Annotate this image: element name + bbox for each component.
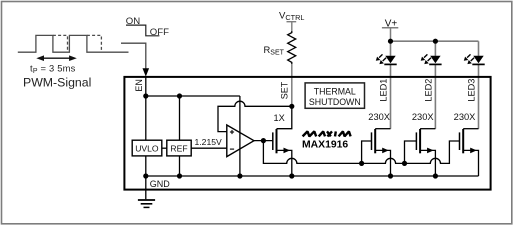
tP period arrow bbox=[36, 55, 77, 61]
op-amp U1 bbox=[227, 125, 254, 157]
ON/OFF step bbox=[126, 25, 159, 36]
svg-text:230X: 230X bbox=[368, 112, 390, 122]
node REF tap junction bbox=[177, 93, 182, 98]
svg-text:THERMAL: THERMAL bbox=[314, 87, 356, 97]
EN arrowhead bbox=[143, 68, 150, 76]
node GND junction UVLO bbox=[143, 173, 148, 178]
svg-text:REF: REF bbox=[170, 143, 187, 153]
wire gate bus with hops bbox=[263, 141, 459, 164]
wire SET pin bbox=[291, 64, 293, 106]
MAXIM logo bbox=[303, 131, 351, 136]
svg-text:VCTRL: VCTRL bbox=[279, 10, 304, 22]
node gate bus junction M1 bbox=[359, 161, 364, 166]
svg-text:OFF: OFF bbox=[150, 27, 169, 38]
resistor RSET bbox=[288, 31, 296, 64]
svg-text:LED3: LED3 bbox=[467, 79, 477, 102]
REF block bbox=[167, 140, 191, 156]
node GND junction M2 bbox=[433, 173, 438, 178]
thermal shutdown block bbox=[305, 83, 364, 108]
LED D3 bbox=[464, 54, 485, 64]
node EN junction bbox=[143, 93, 148, 98]
svg-text:1X: 1X bbox=[274, 113, 285, 123]
PWM waveform bbox=[18, 35, 129, 52]
svg-text:1.215V: 1.215V bbox=[195, 137, 223, 147]
wire REF riser bbox=[179, 96, 181, 140]
wire UVLO riser bbox=[145, 96, 147, 140]
node op-amp output junction bbox=[261, 138, 266, 143]
wire GND pin to ground bbox=[145, 176, 147, 199]
transistor M2 230X bbox=[405, 129, 436, 176]
node V+ bus junction 1 bbox=[388, 39, 393, 44]
wire UVLO-REF link bbox=[162, 147, 167, 149]
wire feedback SET to op-amp + with hop bbox=[218, 101, 292, 131]
wire REF output 1.215V bbox=[191, 147, 227, 149]
wire V+ bus bbox=[391, 40, 479, 42]
ground bbox=[138, 200, 155, 207]
terminal V+ bbox=[382, 28, 398, 42]
wire UVLO to GND bbox=[145, 156, 147, 176]
svg-text:PWM-Signal: PWM-Signal bbox=[23, 75, 91, 89]
LED D1 bbox=[376, 54, 397, 64]
node GND junction 1X bbox=[289, 173, 294, 178]
svg-text:GND: GND bbox=[150, 179, 171, 189]
node gate bus junction M2 bbox=[402, 161, 407, 166]
transistor 1X bbox=[273, 129, 292, 176]
wire LED3 branch bbox=[478, 41, 480, 129]
svg-text:230X: 230X bbox=[454, 112, 476, 122]
transistor M1 230X bbox=[362, 129, 391, 176]
node GND junction REF bbox=[177, 173, 182, 178]
UVLO block bbox=[132, 140, 162, 156]
node SET junction bbox=[289, 104, 294, 109]
node V+ bus junction 2 bbox=[433, 39, 438, 44]
node GND junction M1 bbox=[388, 173, 393, 178]
wire REF to GND bbox=[179, 156, 181, 176]
wire op-amp enable rail bbox=[239, 96, 241, 176]
IC MAX1916 box bbox=[124, 77, 490, 190]
transistor M3 230X bbox=[460, 129, 479, 176]
svg-text:SHUTDOWN: SHUTDOWN bbox=[309, 97, 361, 107]
wire GND bus bbox=[146, 175, 479, 177]
transistor 1X drain wire bbox=[277, 106, 292, 128]
svg-text:SET: SET bbox=[279, 81, 289, 99]
svg-text:230X: 230X bbox=[412, 112, 434, 122]
wire EN bus bbox=[146, 95, 240, 97]
svg-text:LED2: LED2 bbox=[424, 79, 434, 102]
LED D2 bbox=[421, 54, 442, 64]
wire EN internal bbox=[145, 77, 147, 96]
svg-text:ON: ON bbox=[126, 16, 140, 27]
svg-text:EN: EN bbox=[134, 79, 144, 92]
wire LED2 branch bbox=[434, 41, 436, 129]
wire EN feed bbox=[121, 43, 146, 69]
terminal V_CTRL bbox=[287, 22, 297, 31]
node GND junction op-amp bbox=[237, 173, 242, 178]
wire LED1 branch bbox=[390, 41, 392, 129]
svg-text:MAX1916: MAX1916 bbox=[302, 140, 348, 151]
wire op-amp output / 1X gate bbox=[254, 140, 273, 142]
svg-text:LED1: LED1 bbox=[379, 79, 389, 102]
svg-text:V+: V+ bbox=[385, 18, 398, 29]
svg-text:UVLO: UVLO bbox=[135, 143, 159, 153]
svg-text:tP = 3 5ms: tP = 3 5ms bbox=[30, 62, 76, 75]
